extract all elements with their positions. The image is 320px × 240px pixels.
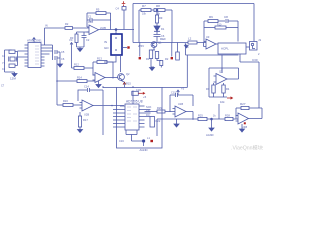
svg-text:R8: R8 bbox=[156, 4, 160, 8]
node red left bbox=[139, 57, 141, 59]
ground junction bbox=[209, 128, 214, 131]
wire U8 bottom legs bbox=[126, 130, 137, 135]
node red bottom bbox=[150, 140, 153, 142]
svg-text:IN: IN bbox=[104, 40, 107, 44]
wire input bus top-left bbox=[45, 28, 66, 45]
svg-text:R9: R9 bbox=[159, 16, 163, 20]
svg-text:IN: IN bbox=[45, 24, 48, 28]
ground U7 bbox=[78, 130, 83, 133]
svg-text:AT89C2051: AT89C2051 bbox=[27, 39, 42, 43]
svg-text:R5: R5 bbox=[96, 8, 100, 12]
node chain top bbox=[156, 9, 158, 11]
resistor R12 bbox=[74, 67, 84, 70]
feedback resistor R27 bbox=[236, 107, 241, 109]
svg-text:Y1: Y1 bbox=[2, 62, 6, 65]
node +5V red bbox=[127, 46, 129, 48]
svg-text:C2: C2 bbox=[86, 38, 90, 42]
svg-text:C1: C1 bbox=[2, 55, 6, 58]
feedback resistor R13 bbox=[93, 61, 97, 63]
svg-text:10k: 10k bbox=[156, 13, 161, 16]
svg-text:C14: C14 bbox=[84, 85, 89, 89]
wire U8 right leads bbox=[145, 110, 151, 117]
wire U8 top bbox=[132, 91, 134, 105]
capacitor C4 bbox=[122, 7, 126, 11]
node red right bbox=[171, 57, 173, 59]
svg-text:C16: C16 bbox=[119, 139, 124, 143]
module boundary box bbox=[117, 88, 163, 149]
svg-text:C8: C8 bbox=[224, 15, 228, 19]
power arrow dark red bbox=[123, 82, 126, 84]
wire mid tap bbox=[186, 44, 239, 55]
ground small bbox=[185, 45, 189, 48]
svg-text:R16: R16 bbox=[63, 99, 68, 103]
op-amp U1 bbox=[87, 25, 99, 35]
node j3 bbox=[132, 86, 134, 88]
svg-text:U1A: U1A bbox=[88, 20, 93, 24]
op-amp U7 bbox=[80, 100, 94, 111]
node j5 bbox=[111, 105, 113, 107]
feedback resistor R19 bbox=[204, 20, 208, 22]
svg-text:C7: C7 bbox=[1, 85, 5, 88]
resistor R28 bbox=[225, 117, 233, 120]
node j4 bbox=[156, 9, 158, 11]
wire loop left bbox=[208, 68, 210, 97]
wire U4 to J1 bbox=[246, 46, 250, 48]
svg-text:R2: R2 bbox=[165, 57, 169, 61]
ground crystal bbox=[12, 72, 17, 77]
ground bbox=[150, 67, 155, 71]
wire U5 feedback legs bbox=[93, 62, 113, 79]
svg-text:R1: R1 bbox=[146, 57, 150, 61]
resistor R22 bbox=[150, 117, 155, 128]
resistor R17 bbox=[79, 112, 81, 116]
wire bottom center bbox=[132, 135, 143, 142]
svg-text:L2: L2 bbox=[188, 37, 192, 41]
svg-text:12M: 12M bbox=[10, 77, 16, 81]
capacitor C6 bbox=[154, 35, 161, 43]
ground bbox=[77, 47, 85, 52]
wire U1 output bbox=[99, 29, 135, 31]
wire Q1 emitter bbox=[151, 47, 155, 50]
wire U7 out bbox=[93, 105, 124, 107]
wire U8 left pin stubs bbox=[113, 110, 120, 128]
U6 pin text bbox=[35, 46, 39, 64]
svg-text:2: 2 bbox=[258, 52, 260, 56]
wire U10 out bbox=[249, 108, 263, 119]
resistor R11c bbox=[177, 43, 179, 53]
op-amp U9 bbox=[173, 106, 187, 117]
svg-text:GD: GD bbox=[104, 46, 109, 50]
svg-text:AGND: AGND bbox=[140, 148, 148, 152]
wire bottom rail right bbox=[157, 118, 198, 120]
wire right drop bbox=[258, 62, 260, 108]
svg-text:R22: R22 bbox=[156, 119, 161, 123]
svg-text:R25: R25 bbox=[198, 114, 203, 118]
svg-text:SCK: SCK bbox=[146, 105, 152, 109]
ground U10 bbox=[240, 129, 245, 132]
svg-text:Q3: Q3 bbox=[219, 70, 223, 74]
svg-text:U3: U3 bbox=[206, 35, 210, 39]
wire top right drop bbox=[253, 4, 255, 42]
node j6 bbox=[192, 118, 194, 120]
node junction bbox=[211, 118, 213, 120]
svg-text:1k: 1k bbox=[186, 46, 189, 49]
capacitor C2 bbox=[77, 32, 89, 47]
transistor Q1 bbox=[151, 42, 157, 48]
svg-text:10k: 10k bbox=[220, 100, 225, 104]
svg-text:D1: D1 bbox=[161, 27, 165, 31]
svg-text:R7: R7 bbox=[142, 4, 146, 8]
svg-text:Q2: Q2 bbox=[126, 72, 130, 76]
resistor R16 bbox=[63, 104, 73, 107]
svg-text:C15: C15 bbox=[171, 91, 176, 95]
svg-text:U2A: U2A bbox=[96, 83, 101, 87]
wire U10 bottom bbox=[241, 124, 243, 129]
U8 pins right bbox=[139, 106, 145, 127]
node ferrite bead bbox=[142, 139, 145, 142]
U3 pins bbox=[115, 37, 117, 51]
wire U7 input bbox=[57, 104, 63, 106]
IC U6 bbox=[28, 43, 41, 68]
wire bottom rail bbox=[133, 42, 188, 44]
svg-text:C18: C18 bbox=[136, 89, 141, 92]
IC U8 bbox=[125, 104, 139, 130]
wire bias bbox=[72, 47, 75, 69]
svg-text:C6: C6 bbox=[61, 57, 65, 61]
svg-text:AD7705 U8: AD7705 U8 bbox=[126, 100, 143, 104]
crystal circuit outer wire bbox=[5, 50, 25, 72]
wire U9 feedback legs bbox=[170, 95, 193, 112]
op-amp U10 bbox=[236, 113, 249, 124]
wire top long bbox=[133, 4, 254, 43]
wire loop top rail bbox=[209, 67, 239, 69]
module U4 bbox=[216, 43, 218, 45]
svg-text:10k: 10k bbox=[142, 13, 147, 16]
power arrow U9 bbox=[177, 90, 180, 95]
wire feedback legs U2 bbox=[204, 21, 238, 43]
resistor R10 bbox=[149, 50, 152, 59]
svg-text:U4B: U4B bbox=[242, 125, 247, 129]
U6 pins right bbox=[41, 45, 45, 66]
resistor R8 bbox=[154, 9, 165, 12]
resistor R21 bbox=[132, 91, 139, 95]
feedback capacitor C1 bbox=[87, 18, 111, 22]
wire U8 bottom rail bbox=[126, 134, 137, 136]
resistor R24 bbox=[223, 83, 225, 85]
resistor R26 vertical bbox=[218, 104, 220, 119]
power red arrow mid bbox=[227, 97, 231, 99]
feedback capacitor C14 bbox=[78, 88, 103, 105]
ground U5 bbox=[96, 81, 101, 88]
wire U9 out bbox=[186, 112, 193, 120]
bus U8 left bbox=[102, 106, 104, 136]
wire U3 right stub bbox=[122, 47, 127, 49]
wire Q2 emitter down bbox=[121, 80, 125, 87]
feedback resistor R5 bbox=[87, 12, 96, 14]
wire signal y87 bbox=[103, 55, 187, 88]
wire U4 pin down bbox=[240, 54, 259, 62]
svg-text:R3: R3 bbox=[206, 87, 210, 91]
resistor R7 bbox=[139, 9, 141, 11]
op-amp U5 bbox=[93, 73, 106, 83]
svg-text:R12: R12 bbox=[74, 63, 79, 67]
wire Q3 out bbox=[227, 68, 239, 79]
node j2 bbox=[102, 86, 104, 88]
power arrow P2 bbox=[70, 43, 73, 47]
svg-text:C6: C6 bbox=[161, 34, 165, 38]
ground C13 bbox=[58, 62, 63, 67]
node j7 bbox=[185, 43, 187, 45]
svg-text:J1: J1 bbox=[258, 38, 262, 42]
resistor R9 bbox=[156, 10, 158, 15]
svg-text:R10: R10 bbox=[217, 24, 222, 27]
wire cap bus bbox=[52, 45, 54, 60]
transistor Q2 bbox=[118, 74, 125, 81]
capacitor C10 bbox=[9, 50, 15, 53]
node red U10 bbox=[244, 122, 246, 124]
svg-text:R29: R29 bbox=[157, 106, 162, 110]
crystal Y1 bbox=[10, 57, 15, 61]
svg-text:C30: C30 bbox=[252, 58, 258, 62]
U8 pin text bbox=[127, 107, 137, 121]
wire U5 out bbox=[105, 77, 118, 79]
diode D1 bbox=[154, 26, 160, 31]
svg-text:AGND: AGND bbox=[206, 133, 214, 137]
wire U6 right leads bbox=[45, 45, 53, 54]
transistor Q3 bbox=[221, 68, 223, 73]
svg-text:2.5V: 2.5V bbox=[138, 44, 144, 48]
resistor R29 bbox=[157, 110, 165, 113]
wire junction down bbox=[211, 119, 213, 128]
resistor R3 bbox=[76, 32, 78, 34]
resistor R14 bbox=[57, 80, 77, 82]
U6 pins left bbox=[25, 45, 29, 66]
feedback capacitor C8 bbox=[226, 19, 238, 23]
svg-text:R13: R13 bbox=[97, 57, 102, 61]
feedback capacitor C15 bbox=[170, 93, 193, 97]
wire emitter rail bbox=[151, 59, 154, 68]
svg-text:DO: DO bbox=[146, 114, 150, 117]
U8 pins left bbox=[120, 106, 125, 127]
svg-text:C4: C4 bbox=[116, 7, 120, 11]
svg-text:+5: +5 bbox=[181, 87, 185, 91]
svg-text:R2: R2 bbox=[65, 22, 69, 26]
connector J1 bbox=[250, 42, 258, 51]
resistor R23 bbox=[213, 83, 215, 85]
resistor R18 bbox=[188, 41, 197, 44]
wire R2 to U1 bbox=[73, 27, 90, 29]
wire frame stubs down bbox=[140, 43, 172, 57]
svg-text:ACPL: ACPL bbox=[221, 47, 229, 51]
resistor R11 bbox=[155, 52, 158, 59]
ground U9 bbox=[174, 119, 179, 127]
svg-text:R15: R15 bbox=[126, 82, 131, 86]
wire to U3 top bbox=[115, 30, 117, 35]
svg-text:R14: R14 bbox=[77, 76, 82, 80]
node j8 bbox=[56, 80, 58, 82]
svg-text:+5: +5 bbox=[143, 95, 147, 99]
wire leg from rail bbox=[156, 119, 158, 136]
feedback resistor R20 bbox=[204, 27, 215, 29]
wire U9 input bbox=[145, 111, 158, 113]
svg-text:L1: L1 bbox=[147, 136, 150, 140]
wire loop bottom bbox=[209, 96, 227, 98]
svg-text:C2: C2 bbox=[2, 68, 6, 71]
frame left wire bbox=[138, 10, 140, 43]
svg-text:R4: R4 bbox=[226, 87, 230, 91]
svg-text:R28: R28 bbox=[225, 114, 230, 118]
svg-text:R9: R9 bbox=[209, 15, 213, 19]
frame right wire bbox=[171, 10, 173, 43]
bus x57 bbox=[56, 60, 58, 105]
capacitor C11 bbox=[9, 64, 15, 67]
svg-text:DIN: DIN bbox=[146, 110, 150, 113]
capacitor C13 bbox=[55, 52, 60, 62]
wire mid drop bbox=[221, 55, 223, 73]
op-amp U2 bbox=[204, 39, 217, 49]
wire bead down bbox=[143, 143, 145, 146]
power arrow VCC U6 bbox=[33, 38, 36, 43]
svg-text:C5: C5 bbox=[61, 50, 65, 54]
power red arrow right bbox=[138, 92, 143, 94]
svg-text:1k: 1k bbox=[213, 115, 216, 118]
svg-text:.ViaeQnn模块: .ViaeQnn模块 bbox=[231, 144, 264, 152]
svg-text:Q1: Q1 bbox=[158, 41, 162, 45]
svg-text:U1B: U1B bbox=[178, 102, 183, 106]
node out1 bbox=[115, 29, 117, 31]
svg-text:C1: C1 bbox=[88, 15, 92, 19]
wire feedback legs bbox=[87, 13, 111, 30]
svg-text:R17: R17 bbox=[83, 118, 88, 122]
wire U10 feedback leg bbox=[235, 108, 237, 119]
wire U3 bottom pins bbox=[104, 55, 121, 72]
svg-text:R27: R27 bbox=[240, 102, 246, 106]
svg-text:VC: VC bbox=[69, 38, 73, 42]
VCC red arrow bbox=[123, 5, 125, 7]
U3 module highlighted bbox=[111, 34, 122, 55]
svg-text:U2B: U2B bbox=[84, 113, 89, 117]
resistor R11b bbox=[160, 61, 163, 66]
resistor R2 bbox=[65, 27, 73, 30]
resistor R25 bbox=[198, 117, 207, 120]
capacitor C12 bbox=[55, 50, 60, 54]
